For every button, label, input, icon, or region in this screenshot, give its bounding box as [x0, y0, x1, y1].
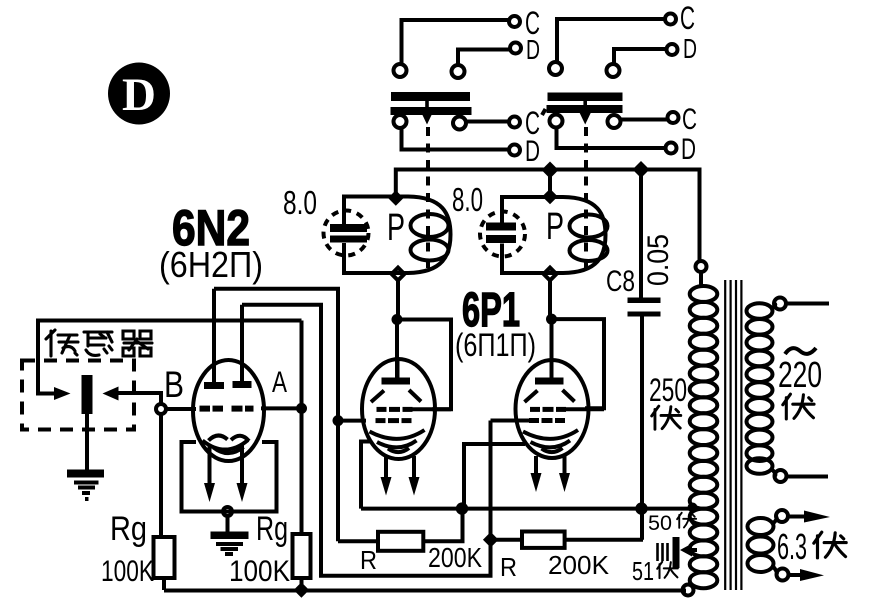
svg-text:Rg: Rg — [256, 510, 288, 548]
power transformer top terminal — [696, 261, 707, 272]
V2 screen grid dashes — [377, 407, 413, 412]
V1 cathode box — [182, 442, 277, 512]
label ~ — [785, 348, 816, 354]
mains bottom terminal — [775, 470, 787, 482]
svg-text:100K: 100K — [101, 555, 154, 588]
svg-text:51: 51 — [632, 556, 654, 586]
V2 beam plates — [371, 391, 384, 403]
terminal D circle (T2 lower) — [666, 143, 677, 154]
svg-text:P: P — [387, 207, 405, 249]
junction dot P2 top — [542, 189, 558, 205]
svg-text:250: 250 — [649, 372, 687, 408]
svg-text:D: D — [122, 69, 156, 121]
svg-text:100K: 100K — [229, 555, 290, 588]
output transformer T2: secondary wire to terminal C — [557, 19, 665, 63]
V2 anode lead inside — [396, 360, 400, 378]
anode lead V3 — [550, 319, 554, 378]
wire bus to P2 top — [548, 170, 552, 197]
terminal D circle (T1 lower) — [509, 145, 520, 156]
B+ top bus wire — [396, 170, 700, 262]
pentode V2 6P1 envelope — [362, 359, 435, 459]
junction on bus (C8 drop) — [633, 161, 650, 178]
heater winding connectors — [774, 517, 777, 523]
grid stub to V3 — [491, 419, 530, 423]
svg-text:(6П1П): (6П1П) — [455, 327, 536, 363]
Rg1 to ground bus — [162, 578, 166, 590]
open junction P2 bottom — [544, 268, 557, 281]
pentode V3 6P1 envelope — [516, 360, 589, 458]
ground below V1 box — [226, 516, 230, 532]
T1 primary-side terminal circles — [394, 115, 407, 128]
svg-text:C: C — [680, 0, 695, 36]
V3 screen grid dashes — [530, 407, 566, 412]
sensor drive wire with arrow — [38, 319, 55, 394]
resistor Rg2 100K — [293, 534, 311, 578]
mains winding turns — [747, 303, 773, 474]
V2 cathode arcs — [370, 430, 425, 439]
P2 winding turns (vesica loops) — [570, 215, 608, 238]
capacitor 8.0 (left) dashed envelope — [324, 211, 369, 256]
grid wire V1 to node A — [261, 406, 302, 410]
terminal C circle (T1) — [509, 16, 520, 27]
V3 control grid dashes — [529, 418, 565, 423]
capacitor C8 bottom wire / R2 riser — [640, 317, 644, 540]
node B terminal circle — [156, 404, 166, 414]
T2 core bar lower — [547, 105, 623, 113]
junction dot V2 grid — [333, 415, 344, 426]
V3 beam plates — [525, 391, 538, 403]
coupling wire V1 right anode to V3 grid — [242, 305, 491, 576]
heater bottom terminal with arrow — [777, 569, 789, 581]
svg-text:R: R — [360, 545, 377, 575]
wire P1 bottom to 6P1 anode node — [396, 279, 400, 320]
label sensor (chuan gan qi) — [46, 330, 152, 356]
svg-text:8.0: 8.0 — [452, 181, 483, 218]
grid wire B to V1 — [167, 407, 197, 411]
terminal D circle (T2) — [667, 44, 678, 55]
open junction below V1 box — [223, 507, 232, 516]
junction dot anode node V2 — [392, 314, 403, 325]
triode V1 6N2 envelope — [193, 360, 264, 461]
V3 anode plate — [535, 378, 564, 385]
R1 right lead — [423, 509, 462, 542]
T1 secondary terminal circles — [394, 64, 407, 77]
T2 core arrow — [583, 96, 587, 114]
resistor R2 200K — [522, 532, 565, 548]
wire to terminal D (T1 lower) — [402, 129, 509, 150]
V3 cathode arcs — [523, 430, 578, 439]
svg-text:D: D — [683, 33, 697, 64]
T2 primary-side terminal circles — [550, 115, 563, 128]
output transformer T1: secondary wire to terminal C — [402, 20, 509, 65]
Rg2 to ground bus — [300, 578, 304, 590]
mains winding connectors — [773, 304, 776, 309]
R2 right lead — [565, 538, 643, 542]
T2 secondary terminal circles — [549, 62, 562, 75]
figure label D (circled) — [108, 63, 170, 125]
junction dot node A — [296, 403, 307, 414]
V3 cathode arrows — [534, 456, 538, 474]
junction diamond Rg2 on bus — [294, 582, 310, 598]
cathode bus wire — [361, 507, 692, 511]
HT winding turns — [690, 286, 718, 588]
T1 core bar upper — [391, 92, 470, 101]
node B arrow wire — [118, 393, 161, 405]
sensor element bar — [82, 375, 93, 414]
R2 left lead junction diamond — [483, 532, 499, 548]
HT winding connector — [699, 272, 703, 287]
sensor ground — [85, 414, 89, 470]
speaker winding P1 loop — [344, 197, 451, 274]
sensor dashed box — [22, 361, 134, 430]
cathode bypass capacitor 50uF plates — [658, 543, 668, 561]
svg-text:200K: 200K — [428, 542, 482, 573]
svg-text:D: D — [525, 135, 540, 168]
capacitor C8 top wire — [639, 172, 643, 298]
capacitor 8.0 (right) dashed envelope — [480, 212, 525, 257]
R1 left lead — [338, 539, 378, 543]
svg-text:0.05: 0.05 — [642, 234, 675, 286]
wire to terminal C' — [467, 120, 509, 124]
svg-text:A: A — [272, 366, 287, 399]
svg-text:8.0: 8.0 — [283, 184, 317, 221]
T2 core bar upper — [548, 93, 623, 102]
cathode arrows V1 — [208, 444, 212, 484]
svg-text:6.3: 6.3 — [777, 526, 807, 567]
label fu (220V) — [783, 394, 814, 419]
svg-text:C8: C8 — [606, 265, 635, 298]
wire to terminal C (T2 lower) — [621, 118, 668, 122]
speaker winding P2 loop — [502, 197, 606, 273]
heater winding turns — [748, 518, 774, 572]
ground bus bottom — [164, 589, 686, 593]
V3 screen exit wire — [566, 407, 604, 411]
junction on bus (P2 drop) — [542, 162, 559, 179]
resistor Rg1 100K — [154, 537, 175, 578]
coupling wire V1 left anode to V2 grid — [214, 289, 338, 542]
screen strap wire V2 — [397, 320, 451, 410]
T1 core arrow — [425, 96, 429, 114]
capacitor 8.0 (left) plates — [330, 224, 367, 232]
V1 cathode arcs — [209, 435, 228, 440]
svg-text:D: D — [526, 34, 540, 65]
HT winding tap junction dot — [688, 503, 698, 513]
svg-text:200K: 200K — [548, 550, 610, 580]
mains top terminal — [774, 298, 786, 310]
junction dot cathode bus left — [456, 502, 468, 514]
V2 screen exit wire — [413, 407, 452, 411]
terminal C circle (T2) — [665, 14, 676, 25]
junction dot anode node V3 — [546, 314, 557, 325]
svg-text:B: B — [164, 364, 184, 405]
wire to terminal D (T2 lower) — [557, 128, 666, 148]
V3 anode lead inside — [550, 360, 554, 378]
node B wire down to Rg1 — [159, 414, 163, 537]
V1 heater arc — [203, 440, 249, 450]
resistor R1 200K — [378, 532, 423, 551]
svg-text:D: D — [681, 133, 696, 166]
V2 cathode wire — [361, 442, 371, 509]
HT winding bottom terminal — [683, 585, 694, 596]
grid stub to V2 — [338, 419, 366, 423]
T1 core bar lower — [391, 107, 472, 115]
terminal C circle (T2 lower) — [668, 112, 679, 123]
svg-text:(6Н2П): (6Н2П) — [159, 244, 263, 285]
svg-text:Rg: Rg — [110, 510, 147, 548]
open junction P1 bottom — [392, 268, 405, 281]
sensor input line (node A line) — [38, 319, 302, 323]
V2 anode plate — [382, 378, 411, 385]
screen strap wire V3 — [552, 319, 605, 408]
50uF polarity arrow — [680, 544, 692, 557]
V1 anode leads — [212, 289, 216, 382]
T1 core dashed axis — [426, 127, 430, 272]
terminal D circle (T1) — [510, 43, 521, 54]
svg-text:P: P — [546, 206, 564, 248]
V1 grid dashes — [200, 406, 254, 412]
P1 winding turns (vesica loops) — [411, 214, 449, 237]
V1 anode plates — [204, 382, 224, 389]
V2 cathode arrows — [384, 456, 388, 478]
T2 secondary wire to terminal D — [614, 49, 666, 65]
R2 left lead — [491, 538, 522, 542]
svg-text:R: R — [500, 552, 517, 582]
anode lead V2 — [395, 320, 399, 379]
terminal C' circle — [509, 117, 520, 128]
svg-text:C: C — [682, 103, 697, 136]
transformer core lines — [725, 280, 741, 590]
capacitor C8 plates — [628, 298, 661, 304]
heater top terminal with arrow — [776, 510, 788, 522]
capacitor 8.0 (right) plates — [486, 223, 516, 231]
wire P2 bottom to 6P1 anode node — [548, 279, 552, 320]
svg-text:50: 50 — [648, 512, 672, 535]
junction dot P1 top — [388, 190, 404, 206]
svg-text:220: 220 — [778, 354, 822, 395]
T2 core dashed axis — [584, 127, 588, 272]
V3 cathode wire — [464, 444, 525, 509]
V2 control grid dashes — [376, 418, 412, 423]
junction dot cathode bus right — [635, 502, 647, 514]
output transformer T1: secondary wire to terminal D — [458, 50, 510, 67]
